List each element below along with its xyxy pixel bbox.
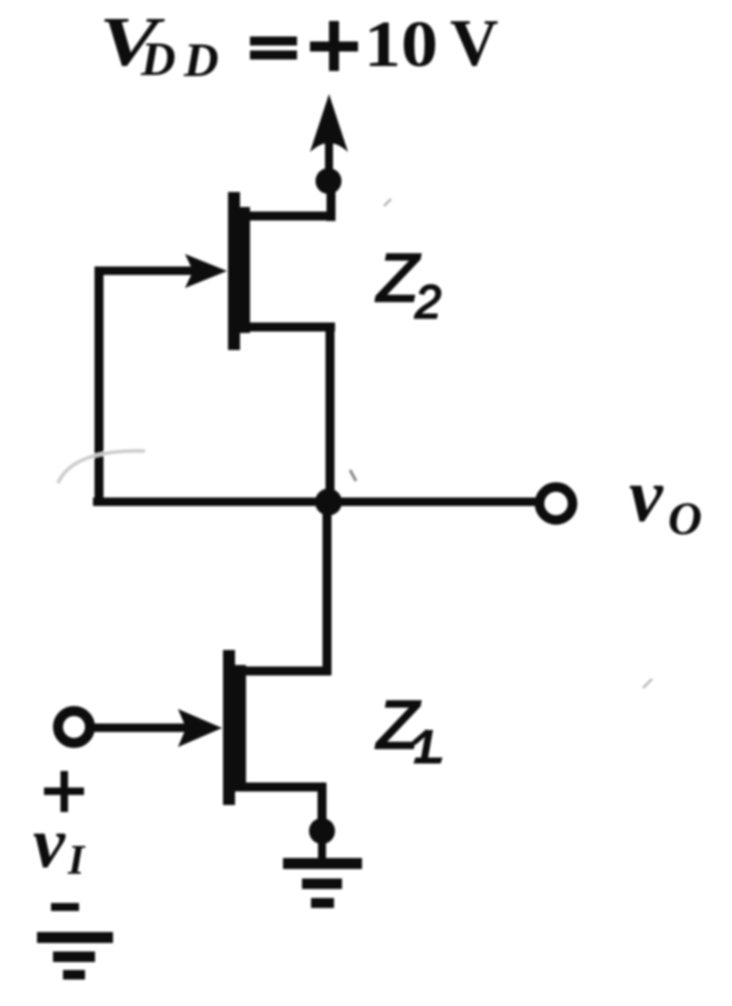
svg-text:2: 2 (414, 275, 441, 328)
VDD supply arrow (310, 94, 348, 152)
ground (vI reference) (37, 932, 113, 980)
label VDD = +10 V (99, 3, 498, 87)
scan artifact speck (643, 679, 652, 688)
wire: Z2 source lead (238, 323, 335, 332)
svg-text:D: D (140, 33, 176, 86)
svg-text:V: V (450, 6, 498, 80)
svg-text:O: O (668, 493, 702, 545)
label - (vI polarity) (51, 903, 79, 911)
svg-text:I: I (67, 838, 86, 884)
ground (Z1 source) (283, 858, 362, 908)
label Z1 (375, 687, 443, 764)
label + (vI polarity) (44, 771, 84, 812)
scan artifact speck (350, 470, 356, 481)
label Z2 (375, 240, 441, 328)
wire: output horizontal (93, 498, 536, 507)
transistor Z1 (223, 650, 246, 805)
scan artifact arc (58, 451, 145, 483)
scan artifact speck (384, 199, 391, 206)
wire: Z2 drain vertical (327, 181, 336, 221)
wire: gate feedback loop vertical (95, 267, 104, 505)
wire: Z2 gate lead with arrow (97, 267, 197, 276)
wire: Z2 drain lead (238, 212, 335, 221)
label vO (629, 454, 702, 545)
node: source node dot (309, 818, 335, 844)
wire: Z1 drain vertical from node (323, 502, 332, 675)
svg-text:v: v (629, 454, 664, 538)
wire: Z1 gate lead with arrow (93, 724, 193, 733)
node: VDD node dot (316, 168, 342, 194)
svg-text:Z: Z (375, 687, 421, 763)
wire: ground stem (318, 831, 326, 860)
wire: Z1 source lead (233, 783, 326, 792)
transistor Z2 (228, 192, 250, 350)
svg-text:D: D (183, 34, 219, 87)
label vI (33, 803, 86, 884)
wire: Z2 source vertical down to output node (326, 323, 335, 503)
svg-text:10: 10 (364, 9, 438, 82)
terminal: output circle (540, 487, 573, 520)
wire: Z1 source vertical (318, 783, 327, 833)
terminal: input circle (58, 711, 90, 743)
svg-text:v: v (33, 803, 66, 883)
wire: Z1 drain lead (233, 667, 331, 676)
node: output junction dot (315, 489, 342, 516)
